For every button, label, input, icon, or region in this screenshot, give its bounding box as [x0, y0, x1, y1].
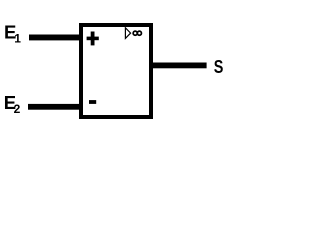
svg-text:1: 1 [14, 32, 21, 46]
label E2 [4, 92, 21, 116]
inverting input marker - [89, 100, 96, 104]
wire S output [149, 63, 207, 69]
wire E1 input [29, 35, 83, 41]
label S [214, 56, 224, 77]
op-amp U1 body [81, 25, 151, 117]
svg-text:2: 2 [14, 102, 21, 116]
label E1 [4, 21, 21, 45]
op-amp U1 gain symbol (triangle + infinity) [125, 28, 141, 39]
svg-text:S: S [214, 56, 224, 77]
non-inverting input marker + [87, 32, 99, 46]
wire E2 input [28, 104, 83, 110]
